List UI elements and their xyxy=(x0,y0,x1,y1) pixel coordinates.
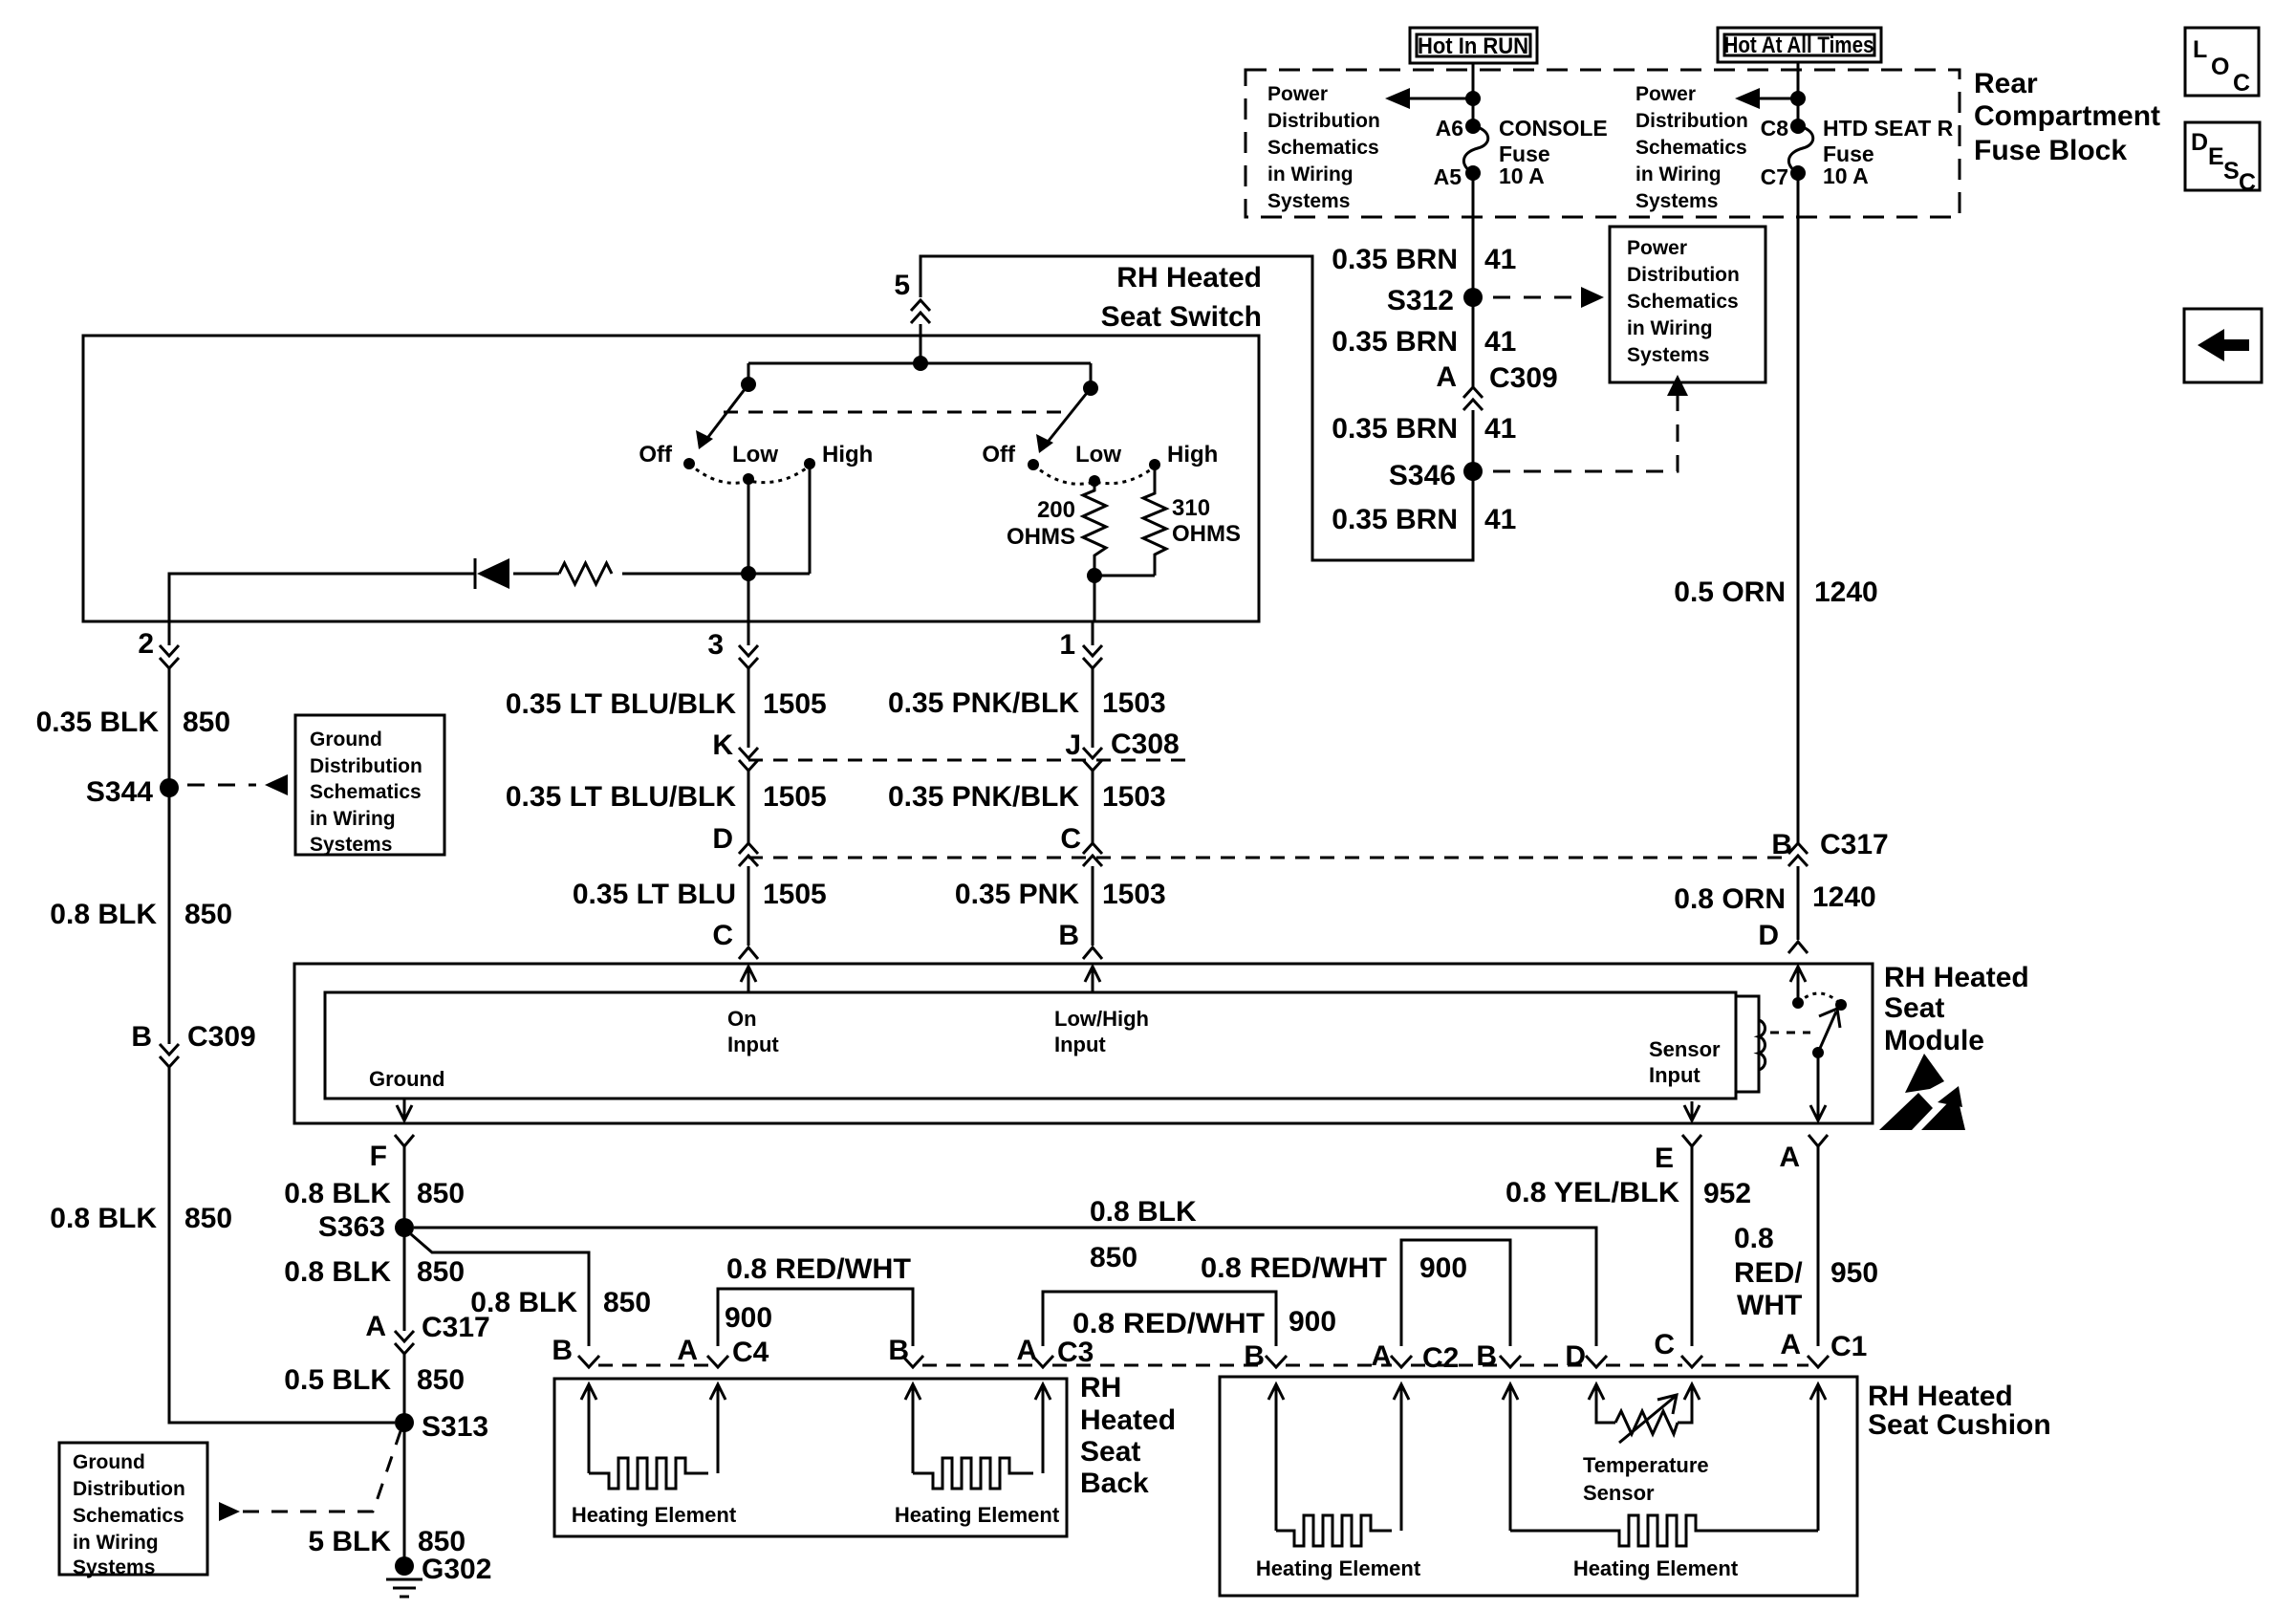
svg-text:B: B xyxy=(552,1335,573,1366)
wire: High contact drop xyxy=(809,464,812,574)
cushion element 1 pins xyxy=(1268,1384,1409,1531)
label HTD SEAT R Fuse 10 A xyxy=(1823,116,1954,188)
switch arm right (pivot) xyxy=(1036,363,1098,453)
node: power distribution reference box (S312/S346) xyxy=(1610,227,1765,382)
svg-text:0.8 RED/WHT: 0.8 RED/WHT xyxy=(1072,1308,1265,1339)
svg-text:B: B xyxy=(131,1021,152,1053)
wire: C7 to C317 B (0.5 ORN 1240) xyxy=(1797,173,1800,843)
diode D (cathode left) xyxy=(475,558,509,589)
label 0.8 BLK 850 (branch) xyxy=(470,1287,651,1318)
svg-text:Seat: Seat xyxy=(1080,1436,1140,1468)
svg-text:RH Heated: RH Heated xyxy=(1868,1381,2013,1412)
svg-text:0.8 RED/WHT: 0.8 RED/WHT xyxy=(1201,1252,1387,1284)
svg-text:0.8 BLK: 0.8 BLK xyxy=(470,1287,577,1318)
svg-text:C2: C2 xyxy=(1422,1342,1459,1374)
label Rear Compartment Fuse Block xyxy=(1974,68,2160,166)
temperature sensor (variable resistor) xyxy=(1615,1395,1678,1443)
svg-text:850: 850 xyxy=(417,1178,465,1209)
svg-text:Input: Input xyxy=(1649,1063,1700,1087)
svg-text:Heating Element: Heating Element xyxy=(572,1503,737,1527)
heating element 2 (cushion) xyxy=(1510,1515,1818,1546)
svg-text:41: 41 xyxy=(1484,326,1516,358)
module relay: D input arrow and contacts xyxy=(1790,967,1847,1011)
splice S344 xyxy=(86,776,179,808)
svg-text:Hot In RUN: Hot In RUN xyxy=(1418,33,1528,59)
svg-text:S: S xyxy=(2223,158,2240,185)
module pin D chevron xyxy=(1758,920,1808,953)
connector C317 (dashed line across) xyxy=(748,857,1788,859)
wire: pin 2 riser and diode rail xyxy=(169,566,810,621)
wire: S363 diagonal branch to C4 B xyxy=(411,1234,589,1346)
svg-text:C1: C1 xyxy=(1830,1331,1867,1362)
svg-text:Sensor: Sensor xyxy=(1649,1037,1721,1061)
svg-text:850: 850 xyxy=(417,1364,465,1396)
label 0.8 BLK 850 (left col mid) xyxy=(50,899,232,930)
module pin E chevron xyxy=(1655,1135,1701,1174)
svg-text:0.8 RED/WHT: 0.8 RED/WHT xyxy=(726,1253,911,1285)
svg-text:in Wiring: in Wiring xyxy=(1635,163,1722,185)
heating element 1 (cushion) xyxy=(1276,1515,1392,1546)
svg-text:Back: Back xyxy=(1080,1468,1149,1499)
heating element 2 (seat back) xyxy=(913,1458,1033,1489)
wire: C2 A to C1 B (0.8 RED/WHT 900) xyxy=(1401,1240,1510,1346)
module relay arm xyxy=(1812,1009,1840,1058)
svg-text:5: 5 xyxy=(894,270,910,301)
svg-text:Distribution: Distribution xyxy=(73,1478,185,1500)
heating element 1 (seat back) xyxy=(589,1458,708,1489)
wire: C4 A to C3 B (0.8 RED/WHT 900) xyxy=(718,1289,913,1346)
note Ground Distribution Schematics in Wiring Systems (lower) xyxy=(59,1443,207,1578)
svg-text:Schematics: Schematics xyxy=(310,781,422,803)
svg-text:B: B xyxy=(888,1335,909,1366)
connector: switch pin 3 xyxy=(707,621,758,668)
module relay output arrow to A xyxy=(1810,1053,1826,1120)
component RH Heated Seat Module (outer box) xyxy=(294,964,1873,1123)
wire: branch arrow to power distribution (left) xyxy=(1385,88,1481,109)
svg-text:0.5 ORN: 0.5 ORN xyxy=(1674,577,1786,608)
label Temperature Sensor xyxy=(1583,1453,1709,1505)
svg-text:850: 850 xyxy=(417,1256,465,1288)
svg-text:5 BLK: 5 BLK xyxy=(308,1526,391,1557)
svg-text:B: B xyxy=(1244,1340,1265,1372)
svg-text:Systems: Systems xyxy=(310,834,392,856)
label CONSOLE Fuse 10 A xyxy=(1499,116,1608,188)
svg-text:B: B xyxy=(1771,829,1792,860)
svg-text:S312: S312 xyxy=(1387,285,1454,316)
svg-text:200: 200 xyxy=(1037,497,1075,523)
svg-text:A: A xyxy=(1371,1340,1392,1372)
svg-text:A6: A6 xyxy=(1436,116,1463,141)
svg-text:Ground: Ground xyxy=(310,729,382,751)
wire: A to C1 A (0.8 RED/WHT 950) xyxy=(1817,1146,1820,1346)
svg-text:S363: S363 xyxy=(318,1211,385,1243)
label 5 BLK 850 xyxy=(308,1526,466,1557)
connector C4 pin B xyxy=(552,1335,599,1367)
svg-text:CONSOLE: CONSOLE xyxy=(1499,116,1608,141)
wire: C317 D to module pin C xyxy=(747,866,750,946)
wire: resistors junction to pin 1 xyxy=(1087,568,1102,621)
svg-text:950: 950 xyxy=(1830,1257,1878,1289)
svg-text:1240: 1240 xyxy=(1812,881,1876,913)
svg-text:1505: 1505 xyxy=(763,781,827,813)
svg-text:1503: 1503 xyxy=(1102,687,1166,719)
fuse CONSOLE 10 A xyxy=(1463,119,1487,181)
LOC box xyxy=(2185,28,2259,97)
label RH Heated Seat Switch xyxy=(1101,262,1262,333)
module Low/High Input pin arrow xyxy=(1054,967,1149,1056)
component RH Heated Seat Back box xyxy=(554,1379,1067,1536)
svg-text:Sensor: Sensor xyxy=(1583,1481,1655,1505)
temperature sensor pins D and C xyxy=(1589,1384,1700,1423)
wire: Low contact to pin 3 (vertical) xyxy=(747,479,750,621)
svg-text:RED/: RED/ xyxy=(1734,1257,1803,1289)
module On Input pin arrow xyxy=(727,967,779,1056)
wire: pin 2 to C309 B (0.35 BLK 850) xyxy=(168,668,171,1044)
Hot At All Times box xyxy=(1718,28,1881,62)
dashed reference arrow S313 to ground note xyxy=(219,1431,401,1521)
label 0.5 BLK 850 xyxy=(284,1364,465,1396)
svg-text:S313: S313 xyxy=(422,1411,488,1443)
ESD sensitive icon xyxy=(1879,1054,1965,1130)
svg-text:Systems: Systems xyxy=(1635,190,1718,212)
svg-text:850: 850 xyxy=(603,1287,651,1318)
svg-text:C308: C308 xyxy=(1111,729,1180,760)
svg-text:On: On xyxy=(727,1007,757,1031)
label 0.35 BRN 41 (row 2) xyxy=(1332,326,1516,358)
connector C2 pin A xyxy=(1371,1340,1459,1374)
svg-text:Heating Element: Heating Element xyxy=(1573,1556,1739,1580)
connector C1 pin B xyxy=(1476,1340,1521,1372)
wire: C317 C to module pin B xyxy=(1092,866,1094,946)
note Power Distribution Schematics in Wiring Systems (middle) xyxy=(1635,83,1748,212)
svg-text:Schematics: Schematics xyxy=(1267,137,1379,159)
connector: switch pin 1 xyxy=(1059,621,1102,668)
label 0.35 BRN 41 (row 3) xyxy=(1332,413,1516,445)
label 0.8 RED/WHT 950 (stacked) xyxy=(1734,1223,1878,1321)
DESC box xyxy=(2185,122,2260,196)
svg-text:Seat: Seat xyxy=(1884,992,1944,1024)
label 0.35 LT BLU/BLK 1505 (row 1) xyxy=(506,688,827,720)
svg-text:A: A xyxy=(1779,1142,1800,1173)
cushion element 2 pins B and A xyxy=(1503,1384,1826,1531)
connector C4 pin A xyxy=(677,1335,769,1368)
connector C3 pin A xyxy=(1016,1335,1094,1368)
wire: A5 to connector C309 pin A (0.35 BRN 41) xyxy=(1472,173,1475,387)
svg-text:B: B xyxy=(1476,1340,1497,1372)
svg-text:C8: C8 xyxy=(1761,116,1789,141)
svg-text:0.35 PNK/BLK: 0.35 PNK/BLK xyxy=(888,687,1079,719)
svg-text:Systems: Systems xyxy=(1627,344,1709,366)
svg-text:0.35 BRN: 0.35 BRN xyxy=(1332,504,1458,535)
note Ground Distribution Schematics in Wiring Systems (upper) xyxy=(295,715,444,856)
splice S363 xyxy=(318,1211,414,1243)
seat back element 1 pins xyxy=(581,1384,726,1473)
svg-text:OHMS: OHMS xyxy=(1172,521,1241,547)
svg-text:0.35 LT BLU/BLK: 0.35 LT BLU/BLK xyxy=(506,781,736,813)
svg-text:41: 41 xyxy=(1484,504,1516,535)
svg-text:Compartment: Compartment xyxy=(1974,100,2160,132)
svg-text:0.35 PNK: 0.35 PNK xyxy=(955,879,1079,910)
svg-text:850: 850 xyxy=(184,1203,232,1234)
svg-text:C3: C3 xyxy=(1057,1337,1094,1368)
svg-text:Distribution: Distribution xyxy=(1267,110,1380,132)
svg-text:41: 41 xyxy=(1484,244,1516,275)
svg-text:0.8 BLK: 0.8 BLK xyxy=(284,1178,391,1209)
svg-text:A: A xyxy=(1780,1329,1801,1360)
label 0.35 LT BLU 1505 (row 3) xyxy=(573,879,827,910)
svg-text:D: D xyxy=(1758,920,1779,951)
svg-text:1: 1 xyxy=(1059,629,1075,661)
svg-text:S346: S346 xyxy=(1389,460,1456,491)
svg-text:A: A xyxy=(677,1335,698,1366)
svg-text:C: C xyxy=(1654,1329,1675,1360)
dashed reference arrow S312 to box xyxy=(1493,287,1604,308)
component RH Heated Seat Cushion box xyxy=(1220,1377,1857,1596)
svg-text:0.8 BLK: 0.8 BLK xyxy=(50,1203,157,1234)
label 0.35 PNK/BLK 1503 (row 1) xyxy=(888,687,1166,719)
svg-text:0.8 BLK: 0.8 BLK xyxy=(50,899,157,930)
dashed reference arrow S344 xyxy=(187,774,288,795)
svg-text:0.8: 0.8 xyxy=(1734,1223,1774,1254)
svg-text:0.35 BRN: 0.35 BRN xyxy=(1332,413,1458,445)
svg-text:900: 900 xyxy=(1419,1252,1467,1284)
svg-text:Hot At All Times: Hot At All Times xyxy=(1724,33,1874,58)
svg-text:0.8 BLK: 0.8 BLK xyxy=(1090,1196,1197,1228)
svg-text:10 A: 10 A xyxy=(1823,163,1869,188)
back-arrow box xyxy=(2184,309,2262,382)
fuse HTD SEAT R 10 A xyxy=(1788,119,1812,181)
connector C1 pin A xyxy=(1780,1329,1867,1367)
svg-text:952: 952 xyxy=(1703,1178,1751,1209)
wire: pin 3 to C308 K xyxy=(747,668,750,748)
svg-text:Schematics: Schematics xyxy=(1627,291,1739,313)
wire: pin 1 to C308 J xyxy=(1092,668,1094,748)
svg-text:Input: Input xyxy=(727,1033,779,1056)
svg-text:D: D xyxy=(1565,1340,1586,1372)
svg-text:HTD SEAT R: HTD SEAT R xyxy=(1823,116,1954,141)
wire: switch top rail xyxy=(748,356,1091,371)
label 0.8 BLK 850 (long wire) xyxy=(1090,1196,1197,1273)
svg-text:Seat Switch: Seat Switch xyxy=(1101,301,1262,333)
connector C3 pin B xyxy=(888,1335,923,1367)
module sensor coil xyxy=(1736,996,1765,1092)
svg-text:Fuse Block: Fuse Block xyxy=(1974,135,2127,166)
connector C317 pin A (inline) xyxy=(365,1311,489,1354)
svg-text:A: A xyxy=(365,1311,386,1342)
component RH Heated Seat Switch box xyxy=(83,336,1259,621)
svg-text:Power: Power xyxy=(1267,83,1328,105)
connector C308 pin J xyxy=(1065,729,1179,771)
right contacts Off/Low/High xyxy=(982,442,1218,487)
svg-text:0.8 BLK: 0.8 BLK xyxy=(284,1256,391,1288)
module pin F chevron xyxy=(370,1135,414,1172)
svg-text:0.35 BRN: 0.35 BRN xyxy=(1332,244,1458,275)
svg-text:Heating Element: Heating Element xyxy=(1256,1556,1421,1580)
label RH Heated Seat Module xyxy=(1884,962,2029,1056)
svg-text:0.5 BLK: 0.5 BLK xyxy=(284,1364,391,1396)
connector C1 pin D xyxy=(1565,1340,1607,1372)
svg-text:1503: 1503 xyxy=(1102,879,1166,910)
svg-text:RH: RH xyxy=(1080,1372,1121,1403)
dashed link coil to relay arm xyxy=(1770,1032,1810,1034)
note Power Distribution Schematics in Wiring Systems (left) xyxy=(1267,83,1380,212)
wire: S363 to C1 D (0.8 BLK 850 long) xyxy=(414,1228,1596,1346)
svg-text:Off: Off xyxy=(639,442,673,468)
wire: E to C1 C (0.8 YEL/BLK 952) xyxy=(1691,1146,1694,1346)
label 0.35 BRN 41 (row 4) xyxy=(1332,504,1516,535)
svg-text:Distribution: Distribution xyxy=(1635,110,1748,132)
svg-text:2: 2 xyxy=(138,628,154,660)
seat back element 2 pins xyxy=(905,1384,1051,1473)
svg-text:K: K xyxy=(712,729,733,761)
svg-text:Off: Off xyxy=(982,442,1016,468)
dashed reference arrow S346 to box xyxy=(1493,375,1688,471)
connector C309 pin B (inline) xyxy=(131,1021,255,1067)
module E pin arrow xyxy=(1684,1101,1700,1120)
svg-text:3: 3 xyxy=(707,629,724,661)
svg-text:850: 850 xyxy=(184,899,232,930)
svg-text:C317: C317 xyxy=(1820,829,1889,860)
label 0.8 ORN 1240 xyxy=(1674,881,1875,915)
dashed gang link between switch arms xyxy=(724,411,1062,414)
svg-text:1503: 1503 xyxy=(1102,781,1166,813)
connector C2 pin B xyxy=(1244,1340,1287,1372)
svg-text:850: 850 xyxy=(1090,1242,1137,1273)
svg-text:C: C xyxy=(2233,70,2250,97)
svg-text:C7: C7 xyxy=(1761,164,1788,189)
module Ground pin arrow xyxy=(369,1067,444,1120)
svg-text:850: 850 xyxy=(183,707,230,738)
module pin B chevron xyxy=(1058,920,1102,959)
connector C308 (dashed line) xyxy=(748,759,1195,762)
svg-text:D: D xyxy=(712,823,733,855)
svg-text:High: High xyxy=(1167,442,1218,468)
svg-text:F: F xyxy=(370,1141,387,1172)
wire: C308 J to C317 C xyxy=(1092,771,1094,843)
svg-text:in Wiring: in Wiring xyxy=(73,1532,159,1554)
label 0.8 BLK 850 (below S363) xyxy=(284,1256,465,1288)
resistor 200 OHMS xyxy=(1007,481,1106,576)
wire: C3 A to C2 B (0.8 RED/WHT 900) xyxy=(1043,1292,1276,1346)
svg-text:High: High xyxy=(822,442,873,468)
wire: C309 B down to S313 xyxy=(169,1067,395,1423)
left contacts Off/Low/High xyxy=(639,442,873,485)
svg-text:O: O xyxy=(2211,54,2229,80)
svg-text:41: 41 xyxy=(1484,413,1516,445)
label RH Heated Seat Cushion xyxy=(1868,1381,2051,1441)
svg-text:1505: 1505 xyxy=(763,879,827,910)
svg-text:1240: 1240 xyxy=(1814,577,1878,608)
splice S346 xyxy=(1389,460,1483,491)
svg-text:RH Heated: RH Heated xyxy=(1116,262,1262,294)
wire: F to A C317 (0.8 BLK 850) xyxy=(403,1146,406,1331)
connector: switch pin 2 xyxy=(138,621,179,668)
svg-text:900: 900 xyxy=(725,1302,772,1334)
module Sensor Input label xyxy=(1649,1037,1721,1087)
wire: C317 A to G302 (0.5 BLK / 5 BLK 850) xyxy=(403,1354,406,1566)
wire: C308 K to C317 D xyxy=(747,771,750,843)
svg-text:D: D xyxy=(2191,129,2208,156)
label 0.5 ORN 1240 xyxy=(1674,577,1877,608)
wire: Hot In RUN feed to CONSOLE fuse xyxy=(1472,63,1475,126)
svg-text:OHMS: OHMS xyxy=(1007,524,1075,550)
svg-text:Low/High: Low/High xyxy=(1054,1007,1149,1031)
svg-text:310: 310 xyxy=(1172,495,1210,521)
svg-text:B: B xyxy=(1058,920,1079,951)
svg-text:10 A: 10 A xyxy=(1499,163,1545,188)
svg-text:E: E xyxy=(1655,1142,1674,1174)
svg-text:Distribution: Distribution xyxy=(310,755,422,777)
wire: C309 A to switch pin 5 xyxy=(921,256,1473,560)
svg-text:Seat Cushion: Seat Cushion xyxy=(1868,1409,2051,1441)
svg-text:C309: C309 xyxy=(187,1021,256,1053)
svg-text:G302: G302 xyxy=(422,1554,491,1585)
label 0.8 YEL/BLK 952 xyxy=(1505,1177,1751,1209)
svg-text:C4: C4 xyxy=(732,1337,769,1368)
wire: C317 B to module pin D (0.8 ORN 1240) xyxy=(1797,866,1800,940)
connector: switch pin 5 chevrons xyxy=(894,270,930,323)
resistor 310 OHMS xyxy=(1094,465,1241,576)
connector C317 pin B xyxy=(1771,829,1888,866)
label 0.35 PNK 1503 (row 3) xyxy=(955,879,1166,910)
svg-text:Power: Power xyxy=(1635,83,1696,105)
module inner box xyxy=(325,992,1736,1099)
svg-text:C: C xyxy=(712,920,733,951)
svg-text:1505: 1505 xyxy=(763,688,827,720)
svg-text:0.35 BRN: 0.35 BRN xyxy=(1332,326,1458,358)
svg-text:S344: S344 xyxy=(86,776,153,808)
svg-text:Heating Element: Heating Element xyxy=(895,1503,1060,1527)
svg-text:0.8 ORN: 0.8 ORN xyxy=(1674,883,1786,915)
wire: branch arrow to power distribution (right) xyxy=(1735,88,1806,109)
label 0.35 LT BLU/BLK 1505 (row 2) xyxy=(506,781,827,813)
svg-text:in Wiring: in Wiring xyxy=(1267,163,1354,185)
svg-text:0.35 LT BLU/BLK: 0.35 LT BLU/BLK xyxy=(506,688,736,720)
svg-text:J: J xyxy=(1065,729,1081,761)
connector C308 pin K xyxy=(712,729,758,771)
connector C1 pin C xyxy=(1654,1329,1702,1367)
svg-text:Temperature: Temperature xyxy=(1583,1453,1709,1477)
svg-text:Ground: Ground xyxy=(369,1067,444,1091)
label 0.35 PNK/BLK 1503 (row 2) xyxy=(888,781,1166,813)
svg-text:Low: Low xyxy=(732,442,778,468)
svg-text:900: 900 xyxy=(1289,1306,1336,1338)
svg-text:Power: Power xyxy=(1627,237,1687,259)
ground G302 xyxy=(386,1554,491,1597)
resistor R (series) xyxy=(559,563,612,584)
svg-text:Module: Module xyxy=(1884,1025,1984,1056)
connector C317 pin C xyxy=(1060,823,1102,866)
svg-text:E: E xyxy=(2208,143,2224,170)
svg-text:0.35 LT BLU: 0.35 LT BLU xyxy=(573,879,736,910)
svg-text:in Wiring: in Wiring xyxy=(310,808,396,830)
svg-text:Low: Low xyxy=(1075,442,1121,468)
label 0.8 BLK 850 (left col low) xyxy=(50,1203,232,1234)
label 0.8 BLK 850 (F leg) xyxy=(284,1178,465,1209)
svg-text:in Wiring: in Wiring xyxy=(1627,317,1713,339)
svg-text:Heated: Heated xyxy=(1080,1404,1176,1436)
Rear Compartment Fuse Block (dashed box) xyxy=(1245,70,1960,217)
connector dashed lines C4 C3 C2 C1 xyxy=(598,1364,1809,1367)
label 0.35 BLK 850 xyxy=(36,707,230,738)
svg-text:Distribution: Distribution xyxy=(1627,264,1740,286)
splice S312 xyxy=(1387,285,1483,316)
svg-text:A: A xyxy=(1016,1335,1037,1366)
svg-text:0.8 YEL/BLK: 0.8 YEL/BLK xyxy=(1505,1177,1679,1208)
module pin C chevron xyxy=(712,920,758,959)
svg-text:0.35 BLK: 0.35 BLK xyxy=(36,707,160,738)
switch arm left (pivot) xyxy=(696,363,756,449)
